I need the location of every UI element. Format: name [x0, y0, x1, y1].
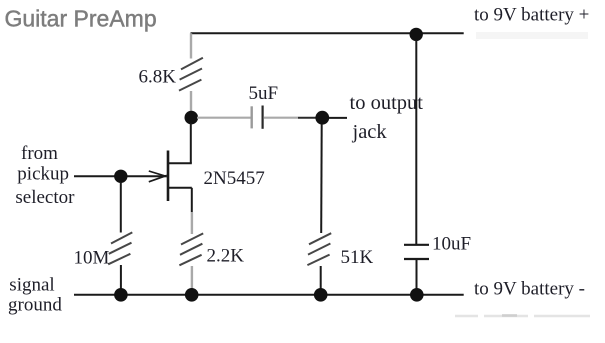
node output junction	[315, 111, 329, 125]
svg-text:from: from	[21, 143, 58, 164]
wire output node down to 51K	[320, 124, 323, 233]
svg-text:pickup: pickup	[17, 164, 69, 185]
wire 10M lower lead	[120, 265, 122, 290]
node drain junction	[185, 111, 199, 125]
label from pickup selector	[15, 143, 75, 208]
wire battery rail down to 10uF	[415, 40, 417, 245]
wire gate lead from pickup	[74, 175, 167, 177]
gate arrowhead	[149, 171, 167, 182]
wire 2.2K lower lead (gray)	[191, 266, 193, 290]
svg-text:5uF: 5uF	[249, 83, 279, 104]
wire gate node down to 10M	[120, 182, 122, 233]
transistor Q1 2N5457 JFET	[167, 151, 192, 202]
wire ground rail	[74, 294, 464, 296]
svg-text:signal: signal	[9, 275, 54, 296]
node ground junction 51K	[314, 288, 328, 302]
wire 5uF right lead (gray then dark)	[264, 117, 298, 119]
wire source lead down	[191, 188, 193, 212]
node ground junction 10M	[114, 288, 128, 302]
scan ghost smudge under battery plus	[476, 32, 588, 39]
node gate junction	[114, 170, 127, 183]
svg-text:2.2K: 2.2K	[207, 246, 245, 267]
svg-text:6.8K: 6.8K	[139, 67, 177, 88]
node battery rail junction	[410, 28, 423, 41]
wire drain branch top vertical (gray)	[190, 33, 192, 58]
wire drain lead up to node	[190, 123, 192, 163]
svg-text:ground: ground	[8, 295, 62, 316]
svg-text:2N5457: 2N5457	[204, 168, 265, 189]
svg-text:10M: 10M	[74, 248, 110, 269]
svg-text:to output: to output	[350, 92, 424, 114]
node ground junction 10uF	[410, 288, 424, 302]
resistor 2.2K	[179, 233, 203, 265]
capacitor 10uF	[404, 245, 429, 259]
label to output jack	[350, 92, 424, 143]
capacitor 5uF	[252, 106, 263, 129]
label signal ground	[8, 275, 62, 316]
resistor 10M	[108, 232, 132, 264]
svg-text:Guitar PreAmp: Guitar PreAmp	[5, 6, 157, 32]
svg-text:to 9V battery -: to 9V battery -	[474, 279, 585, 300]
svg-text:selector: selector	[15, 187, 75, 208]
wire 6.8K lower lead (gray)	[190, 91, 192, 112]
scan ghost smudge bottom right	[455, 314, 590, 317]
wire output stub toward jack label	[329, 117, 347, 119]
resistor 51K	[307, 233, 331, 265]
wire 51K lower lead	[320, 266, 322, 290]
svg-text:to 9V battery +: to 9V battery +	[474, 5, 589, 26]
wire to output node	[298, 117, 322, 119]
wire source branch to 2.2K (gray)	[191, 212, 193, 234]
svg-text:jack: jack	[352, 121, 388, 143]
wire V+ rail top horizontal	[191, 32, 464, 34]
node ground junction 2.2K	[185, 288, 199, 302]
wire 10uF lower lead	[416, 259, 418, 290]
svg-text:10uF: 10uF	[432, 234, 471, 255]
resistor 6.8K	[179, 58, 203, 91]
wire drain node to 5uF left lead (gray)	[197, 117, 252, 119]
svg-text:51K: 51K	[341, 247, 374, 268]
